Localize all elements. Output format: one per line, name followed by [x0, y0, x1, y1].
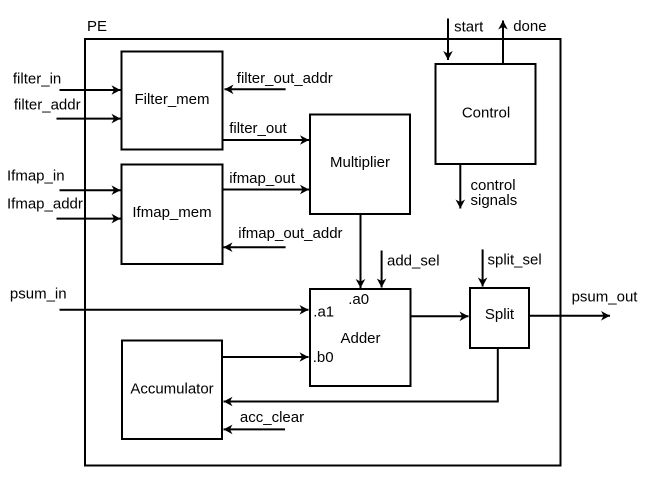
- svg-text:.b0: .b0: [313, 349, 334, 366]
- svg-text:Split: Split: [485, 306, 515, 323]
- svg-text:split_sel: split_sel: [488, 252, 542, 269]
- svg-text:ifmap_out: ifmap_out: [229, 170, 296, 187]
- svg-text:add_sel: add_sel: [387, 253, 440, 270]
- svg-text:signals: signals: [471, 192, 518, 209]
- svg-text:start: start: [454, 19, 484, 36]
- svg-text:ifmap_out_addr: ifmap_out_addr: [238, 225, 342, 242]
- svg-text:.a0: .a0: [348, 291, 369, 308]
- svg-text:PE: PE: [87, 18, 107, 35]
- svg-text:psum_out: psum_out: [572, 289, 639, 306]
- svg-text:Ifmap_in: Ifmap_in: [7, 168, 65, 185]
- svg-text:filter_out_addr: filter_out_addr: [237, 70, 333, 87]
- svg-text:filter_addr: filter_addr: [14, 97, 81, 114]
- svg-text:Adder: Adder: [340, 330, 380, 347]
- svg-text:psum_in: psum_in: [10, 286, 67, 303]
- svg-text:Multiplier: Multiplier: [330, 154, 390, 171]
- svg-text:.a1: .a1: [313, 303, 334, 320]
- svg-text:Control: Control: [462, 104, 510, 121]
- svg-text:done: done: [513, 18, 546, 35]
- svg-text:Filter_mem: Filter_mem: [134, 91, 209, 108]
- svg-text:Accumulator: Accumulator: [130, 381, 213, 398]
- svg-text:filter_out: filter_out: [229, 120, 287, 137]
- svg-text:Ifmap_addr: Ifmap_addr: [7, 196, 83, 213]
- svg-text:filter_in: filter_in: [13, 71, 61, 88]
- svg-text:Ifmap_mem: Ifmap_mem: [132, 204, 211, 221]
- svg-text:acc_clear: acc_clear: [240, 409, 304, 426]
